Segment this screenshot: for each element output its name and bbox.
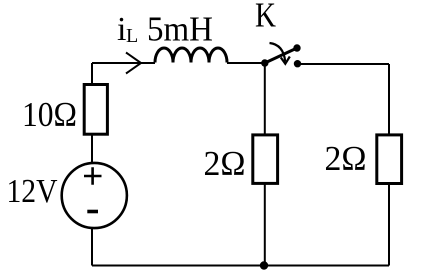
wire source to bottom: [91, 228, 93, 266]
resistor R2 2ohm middle box: [253, 135, 278, 184]
left vertical wire top: [91, 63, 93, 85]
wire inductor to switch: [227, 62, 265, 64]
switch K lower right contact dot: [294, 60, 301, 67]
wire resistor to source: [91, 134, 93, 163]
middle vertical wire from switch to resistor: [264, 63, 266, 135]
switch K upper right contact dot: [293, 44, 300, 51]
switch actuation curved arrow: [270, 43, 286, 62]
bottom junction node dot: [260, 261, 268, 269]
svg-text:5mH: 5mH: [147, 10, 213, 49]
resistor R3 2ohm right box: [377, 135, 402, 184]
inductor L1 5mH: [155, 48, 227, 63]
svg-text:10Ω: 10Ω: [22, 95, 77, 134]
wire switch to right branch: [298, 63, 390, 65]
wire top-left horizontal from source branch to inductor: [92, 62, 155, 64]
svg-text:L: L: [126, 25, 138, 47]
svg-text:K: K: [255, 0, 276, 35]
svg-text:2Ω: 2Ω: [325, 139, 367, 178]
resistor R1 10ohm box: [84, 85, 107, 135]
switch K left contact dot: [261, 59, 268, 66]
svg-text:2Ω: 2Ω: [204, 144, 246, 183]
switch K blade: [265, 48, 297, 63]
wire middle resistor to bottom: [264, 183, 266, 265]
minus sign inside source: [87, 210, 98, 214]
right vertical wire top: [388, 64, 390, 135]
plus sign inside source: [84, 167, 102, 185]
current arrow head on top wire: [126, 53, 141, 74]
wire right resistor to bottom: [388, 184, 390, 266]
voltage source V1 12V circle: [62, 163, 127, 228]
bottom wire: [92, 265, 389, 267]
svg-text:12V: 12V: [7, 173, 58, 210]
